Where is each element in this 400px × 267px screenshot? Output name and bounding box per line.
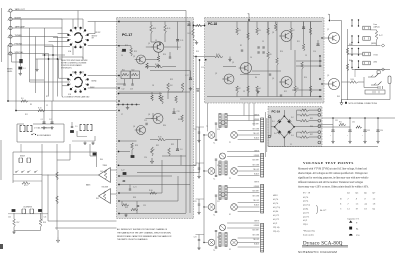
svg-text:Q9: Q9 [327,75,329,77]
svg-text:R7: R7 [46,96,48,98]
svg-text:FRONT: FRONT [95,32,101,34]
svg-text:T1: T1 [206,126,208,128]
svg-text:R6: R6 [255,77,257,79]
svg-text:C15: C15 [201,67,204,69]
svg-text:R13: R13 [134,51,137,53]
svg-text:drawn may vary ±20% or more.: drawn may vary ±20% or more. Other point… [298,186,369,189]
svg-text:C-2: C-2 [49,119,52,121]
svg-text:+: + [347,135,348,137]
svg-text:C6: C6 [121,51,123,53]
svg-text:C9: C9 [155,40,157,42]
svg-text:C23: C23 [194,129,197,131]
svg-text:45) 74: 45) 74 [273,198,278,201]
svg-text:S2: S2 [229,249,231,251]
svg-text:4M-9: 4M-9 [273,195,277,197]
svg-text:Q4: Q4 [133,126,135,128]
svg-text:45) 172: 45) 172 [303,211,309,214]
svg-text:R33: R33 [171,144,174,146]
svg-text:MODE: MODE [20,156,25,158]
svg-text:C25: C25 [143,205,146,207]
svg-text:LOUDNESS: LOUDNESS [23,207,32,209]
svg-text:C27: C27 [217,201,220,203]
svg-text:BLK WHT: BLK WHT [253,230,260,232]
svg-text:(SPKR): (SPKR) [371,43,377,45]
svg-text:BLK GRN: BLK GRN [253,195,259,197]
svg-text:R21: R21 [122,69,125,71]
svg-text:C34: C34 [380,130,383,132]
svg-text:C13: C13 [130,89,133,91]
svg-text:45) 172: 45) 172 [273,218,279,221]
svg-text:C23: C23 [194,165,197,167]
svg-text:BLK GRN: BLK GRN [253,128,259,130]
svg-text:R-50: R-50 [351,79,355,81]
svg-text:THE PARTS ON BOTH CHANNELS.: THE PARTS ON BOTH CHANNELS. [117,238,148,241]
svg-text:C-9: C-9 [180,149,183,151]
svg-text:BLK GRN: BLK GRN [253,234,259,236]
svg-text:TREB: TREB [103,165,107,167]
svg-text:C-11: C-11 [180,40,183,42]
svg-text:C-3: C-3 [23,68,26,70]
svg-text:45) 74: 45) 74 [303,200,308,203]
svg-text:R12: R12 [284,91,287,93]
svg-text:2N) 14): 2N) 14) [273,226,280,229]
svg-text:R57: R57 [310,134,313,136]
svg-text:Q1: Q1 [232,62,234,64]
svg-text:R9: R9 [270,54,272,56]
svg-text:C-21: C-21 [133,187,137,189]
svg-text:WHITE: WHITE [254,221,259,223]
svg-text:WHITE: WHITE [254,115,259,117]
svg-text:C4: C4 [121,55,123,57]
svg-text:SHOWN (E7): SHOWN (E7) [61,67,72,69]
svg-text:R-20: R-20 [155,64,159,66]
svg-text:R-16: R-16 [38,108,42,110]
svg-text:+: + [328,13,330,17]
svg-text:PC-17: PC-17 [122,33,132,37]
svg-text:2N) 8: 2N) 8 [303,223,308,226]
svg-text:R9: R9 [30,104,32,106]
svg-text:BLK WHT: BLK WHT [253,160,260,162]
svg-text:R-11: R-11 [167,28,170,30]
svg-text:C-22: C-22 [121,170,125,172]
svg-text:shorted input. All voltages a: shorted input. All voltages are DC unles… [298,172,368,175]
svg-text:C9: C9 [305,55,307,57]
svg-text:P1: P1 [229,142,231,144]
svg-text:R51: R51 [339,122,342,124]
svg-text:C1: C1 [290,144,292,146]
svg-text:GREEN: GREEN [254,155,259,157]
svg-text:PC-18: PC-18 [208,22,217,26]
svg-text:C20: C20 [144,157,147,159]
svg-text:R-30: R-30 [158,137,162,139]
svg-text:Q7: Q7 [327,29,329,31]
svg-text:R24: R24 [170,85,173,87]
svg-text:C-5: C-5 [75,126,78,128]
svg-text:VOLUME: VOLUME [102,186,108,188]
svg-text:T-1: T-1 [213,250,215,252]
svg-text:R-17: R-17 [188,33,192,35]
svg-text:C3: C3 [243,91,245,93]
svg-text:R-40: R-40 [216,54,220,56]
svg-text:SELECT: SELECT [92,36,98,38]
svg-text:R49: R49 [337,96,340,98]
svg-text:45) 172: 45) 172 [273,214,279,217]
svg-text:YELLOW: YELLOW [253,133,260,135]
svg-text:*Measured by: *Measured by [303,231,316,233]
svg-text:Measured with VTVM (TVM) at ra: Measured with VTVM (TVM) at rated AC lin… [298,168,368,171]
svg-text:P2: P2 [229,178,231,180]
svg-text:R-36: R-36 [149,190,153,192]
svg-text:LEVEL: LEVEL [7,71,12,73]
svg-text:C29: C29 [217,237,220,239]
svg-text:R58: R58 [43,222,46,224]
svg-text:45) 74: 45) 74 [303,196,308,199]
svg-text:45) 9: 45) 9 [303,219,307,222]
svg-text:R14: R14 [163,54,166,56]
svg-text:(SW): (SW) [374,62,378,64]
svg-text:C10: C10 [313,51,316,53]
svg-text:.9: .9 [356,199,358,201]
svg-text:1.2: 1.2 [373,199,376,201]
svg-text:+: + [247,12,249,16]
svg-text:R55: R55 [310,118,313,120]
svg-text:R47: R47 [349,60,352,62]
svg-text:S1: S1 [229,214,231,216]
svg-text:C42: C42 [100,171,103,173]
svg-text:C8: C8 [152,85,154,87]
svg-text:C25: C25 [217,165,220,167]
svg-text:R37: R37 [178,119,181,121]
svg-text:S1B: S1B [68,94,71,96]
svg-text:45) (7.5): 45) (7.5) [273,206,280,209]
svg-text:significant for servicing purp: significant for servicing purposes, in-l… [298,177,369,180]
svg-text:R8: R8 [297,88,299,90]
svg-text:45) 9: 45) 9 [273,222,277,225]
svg-text:C13: C13 [177,111,180,113]
svg-text:R2: R2 [240,45,242,47]
svg-text:R56: R56 [310,126,313,128]
svg-text:+: + [362,135,363,137]
svg-text:C31: C31 [335,120,338,122]
svg-text:GREEN: GREEN [254,119,259,121]
svg-text:8 Ohm: 8 Ohm [374,54,379,56]
svg-text:+: + [330,135,331,137]
svg-text:R10: R10 [153,28,156,30]
svg-text:R14: R14 [304,77,307,79]
svg-text:45) 84: 45) 84 [273,210,278,213]
svg-text:SCHEMATIC DIAGRAM: SCHEMATIC DIAGRAM [298,250,337,254]
svg-text:R2: R2 [239,88,241,90]
svg-text:C33: C33 [367,130,370,132]
svg-text:R46: R46 [349,44,352,46]
svg-text:R39: R39 [125,207,128,209]
svg-text:C23: C23 [194,237,197,239]
svg-text:YELLOW: YELLOW [253,200,260,202]
svg-text:2N) 41): 2N) 41) [273,230,280,233]
svg-text:R-47: R-47 [379,35,383,37]
svg-text:Q1: Q1 [347,193,350,195]
svg-text:R34: R34 [163,125,166,127]
svg-text:R11: R11 [297,41,300,43]
svg-text:T-1: T-1 [213,215,215,217]
svg-text:beam eyelets: beam eyelets [303,234,314,236]
svg-text:BLK GRN: BLK GRN [253,164,259,166]
svg-text:C41: C41 [44,217,47,219]
svg-text:45) 74: 45) 74 [273,202,278,205]
svg-text:C32: C32 [352,122,355,124]
svg-text:Q1: Q1 [148,43,150,45]
svg-text:D-4: D-4 [274,133,277,135]
svg-text:C7: C7 [121,114,123,116]
svg-text:45) (7.5): 45) (7.5) [303,204,310,207]
svg-text:C-1: C-1 [41,119,44,121]
svg-text:45) 84: 45) 84 [303,208,308,211]
svg-text:D-3: D-3 [291,135,294,137]
svg-text:T-1: T-1 [213,179,215,181]
svg-text:R23: R23 [170,79,173,81]
svg-text:R17: R17 [178,47,181,49]
svg-text:Q5: Q5 [272,78,274,80]
svg-text:R19: R19 [196,51,199,53]
svg-text:R60: R60 [100,159,103,161]
svg-text:R-9: R-9 [21,98,24,100]
svg-text:THE SAME AS FOR THE LEFT CHANN: THE SAME AS FOR THE LEFT CHANNEL, WHICH … [117,231,172,234]
svg-text:E-2 CONNECTS FROM CASE GND: E-2 CONNECTS FROM CASE GND [62,96,90,99]
svg-text:84 AC*: 84 AC* [320,209,326,212]
svg-text:D-2: D-2 [291,117,294,119]
svg-text:R62: R62 [96,198,99,200]
svg-text:BLK WHT: BLK WHT [253,124,260,126]
svg-text:.9: .9 [364,199,366,201]
svg-text:D-1: D-1 [272,121,275,123]
svg-text:R1: R1 [239,30,241,32]
svg-text:R7: R7 [293,30,295,32]
svg-text:45) 172: 45) 172 [303,215,309,218]
svg-text:C23: C23 [122,181,125,183]
svg-text:RESISTOR AND CAPACITOR NUMBERS: RESISTOR AND CAPACITOR NUMBERS ARE THE S… [117,235,172,238]
svg-text:C23: C23 [217,129,220,131]
svg-text:Fuse: Fuse [374,24,378,26]
svg-text:C23: C23 [194,201,197,203]
svg-text:R13: R13 [125,45,128,47]
svg-text:GREEN: GREEN [254,186,259,188]
svg-text:T-1: T-1 [213,143,215,145]
svg-text:R-51: R-51 [24,185,28,187]
svg-text:PC-19: PC-19 [303,193,311,195]
svg-text:C40: C40 [8,217,11,219]
svg-text:PC-19: PC-19 [272,110,281,114]
svg-text:YELLOW: YELLOW [253,239,260,241]
svg-text:C4: C4 [250,57,252,59]
svg-text:R10: R10 [280,51,283,53]
svg-text:WHITE: WHITE [254,182,259,184]
svg-text:R18: R18 [145,67,148,69]
svg-text:R32: R32 [156,145,159,147]
svg-text:R3: R3 [259,30,261,32]
svg-text:R11: R11 [25,114,28,116]
svg-text:C15: C15 [144,120,147,122]
svg-text:C2: C2 [46,105,48,107]
svg-text:Q2: Q2 [133,56,135,58]
svg-text:Q2: Q2 [215,73,217,75]
svg-text:19: 19 [356,209,358,211]
svg-text:GREEN: GREEN [254,225,259,227]
svg-text:ALL WIRING NOT SHOWN FOR THE R: ALL WIRING NOT SHOWN FOR THE RIGHT CHANN… [117,228,168,231]
svg-text:R57: R57 [17,222,20,224]
svg-text:C-17: C-17 [185,75,189,77]
svg-text:R38: R38 [133,197,136,199]
svg-text:C5: C5 [262,41,264,43]
svg-text:R4: R4 [259,88,261,90]
svg-text:NOTE: EXTERNAL CONNECTIONS: NOTE: EXTERNAL CONNECTIONS [349,102,378,105]
svg-text:R28: R28 [135,145,138,147]
svg-text:different transistors and stil: different transistors and still be norma… [298,181,363,184]
svg-text:Q3: Q3 [148,114,150,116]
svg-text:BLK WHT: BLK WHT [253,191,260,193]
svg-text:Capacitor C-1: Capacitor C-1 [347,219,359,221]
svg-text:VOLTAGE TEST POINTS: VOLTAGE TEST POINTS [303,161,354,165]
svg-text:D1: D1 [303,110,305,112]
svg-text:C12: C12 [122,89,125,91]
svg-text:WHITE: WHITE [254,151,259,153]
svg-text:R22: R22 [132,69,135,71]
svg-text:YELLOW: YELLOW [253,169,260,171]
svg-text:Q3: Q3 [272,32,274,34]
